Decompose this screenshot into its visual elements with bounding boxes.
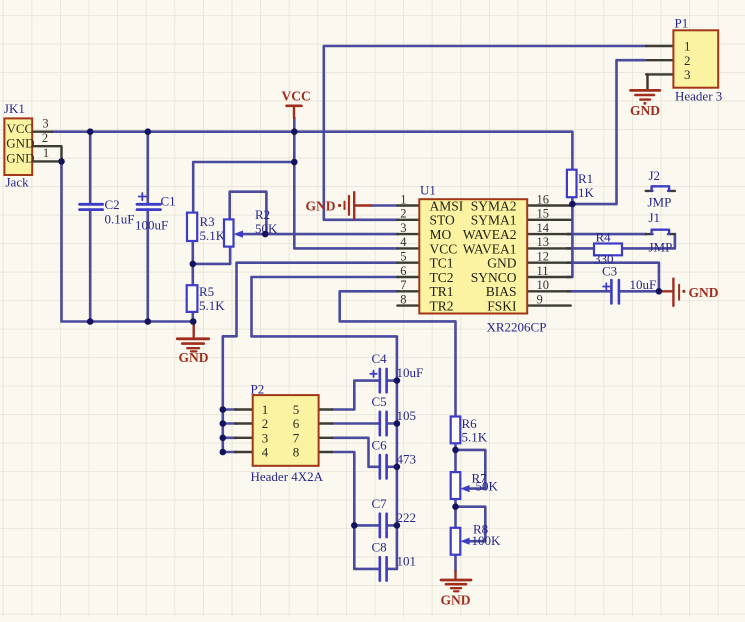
capacitor C6 bbox=[372, 437, 417, 478]
svg-text:6: 6 bbox=[400, 264, 406, 278]
potentiometer R8 bbox=[451, 521, 501, 554]
svg-text:5: 5 bbox=[293, 402, 300, 417]
svg-text:Jack: Jack bbox=[6, 175, 30, 190]
junction bbox=[58, 158, 65, 165]
wire U1 pin10 BIAS to C3 left bbox=[567, 290, 610, 293]
junction bbox=[220, 420, 227, 427]
svg-text:15: 15 bbox=[537, 207, 550, 221]
P2 pin 6 stub bbox=[319, 422, 332, 424]
svg-text:SYNCO: SYNCO bbox=[471, 270, 517, 285]
junction bbox=[291, 128, 298, 135]
svg-text:VCC: VCC bbox=[430, 241, 458, 256]
svg-text:50K: 50K bbox=[476, 478, 499, 493]
svg-text:9: 9 bbox=[537, 292, 543, 306]
JK1 pin 1 stub bbox=[32, 160, 61, 162]
wire R7 wiper loop bbox=[456, 450, 486, 489]
junction bbox=[190, 318, 197, 325]
svg-text:JMP: JMP bbox=[649, 240, 673, 255]
wire C2 top drop bbox=[89, 132, 92, 205]
svg-text:C7: C7 bbox=[372, 496, 388, 511]
VCC power port bbox=[282, 89, 311, 119]
junction bbox=[351, 522, 358, 529]
U1 pin 4 stub bbox=[397, 247, 419, 249]
svg-text:222: 222 bbox=[397, 510, 417, 525]
svg-text:2: 2 bbox=[400, 207, 406, 221]
svg-text:STO: STO bbox=[430, 213, 456, 228]
wire P2 bus to pin2 bbox=[223, 422, 237, 425]
svg-text:5.1K: 5.1K bbox=[200, 228, 226, 243]
U1 pin 6 stub bbox=[397, 276, 419, 278]
U1 pin 9 stub bbox=[527, 304, 571, 306]
svg-text:VCC: VCC bbox=[7, 121, 34, 136]
wire C1 top drop bbox=[147, 132, 150, 205]
svg-text:P2: P2 bbox=[251, 382, 265, 397]
junction bbox=[87, 128, 94, 135]
junction bbox=[656, 288, 663, 295]
junction bbox=[394, 464, 401, 471]
svg-text:GND: GND bbox=[630, 103, 660, 118]
JK1 pin 3 stub bbox=[32, 130, 52, 132]
connector P2 bbox=[251, 382, 324, 485]
wire P2 pin6 to C5 left bbox=[332, 422, 379, 425]
svg-text:MO: MO bbox=[430, 227, 452, 242]
svg-text:FSKI: FSKI bbox=[487, 299, 517, 314]
junction bbox=[452, 503, 459, 510]
U1 pin 2 stub bbox=[397, 219, 419, 221]
wire C5 right tie bbox=[388, 422, 397, 425]
svg-text:101: 101 bbox=[397, 553, 417, 568]
wire R3 top to VCC vertical bbox=[193, 162, 294, 213]
capacitor C3 bbox=[602, 264, 656, 304]
capacitor C4 bbox=[370, 351, 423, 392]
svg-text:TC2: TC2 bbox=[430, 270, 454, 285]
svg-text:C4: C4 bbox=[372, 351, 388, 366]
wire R7 bottom to R8 top bbox=[454, 499, 457, 528]
ground GND under R8 bbox=[441, 571, 472, 608]
svg-text:GND: GND bbox=[6, 151, 34, 166]
svg-text:GND: GND bbox=[306, 199, 336, 214]
wire U1 pin7 TR1 to R6 top bbox=[340, 291, 456, 416]
resistor R4 bbox=[594, 230, 622, 267]
svg-text:J2: J2 bbox=[649, 168, 661, 183]
capacitor C1 bbox=[135, 193, 176, 233]
svg-text:BIAS: BIAS bbox=[486, 284, 517, 299]
U1 pin 14 stub bbox=[527, 233, 571, 235]
power port GND at U1 pin1 bbox=[306, 192, 372, 218]
wire VCC rail top bbox=[52, 132, 573, 170]
P2 pin 3 stub bbox=[235, 437, 253, 439]
P1 pin 2 stub bbox=[646, 59, 673, 61]
junction bbox=[220, 406, 227, 413]
svg-text:473: 473 bbox=[397, 451, 417, 466]
wire R6 bottom to R7 top bbox=[454, 443, 457, 472]
wire P2 pin8 to C8 left bus bbox=[332, 452, 379, 569]
junction bbox=[87, 318, 94, 325]
P2 pin 5 stub bbox=[319, 408, 332, 410]
potentiometer R2 bbox=[224, 207, 278, 247]
junction bbox=[145, 318, 152, 325]
P2 pin 2 stub bbox=[235, 422, 253, 424]
junction bbox=[394, 377, 401, 384]
junction bbox=[220, 449, 227, 456]
ground GND under R5 bbox=[177, 322, 208, 366]
svg-text:8: 8 bbox=[293, 445, 300, 460]
U1 pin 1 stub bbox=[397, 204, 419, 206]
J1 stubs bbox=[646, 233, 653, 235]
svg-text:5: 5 bbox=[400, 250, 406, 264]
svg-text:4: 4 bbox=[400, 235, 407, 249]
svg-text:C1: C1 bbox=[161, 194, 176, 209]
svg-text:C6: C6 bbox=[372, 437, 388, 452]
svg-text:XR2206CP: XR2206CP bbox=[487, 320, 547, 335]
svg-text:7: 7 bbox=[400, 278, 406, 292]
wire R8 wiper loop bbox=[456, 507, 486, 542]
svg-text:WAVEA2: WAVEA2 bbox=[463, 227, 517, 242]
svg-text:AMSI: AMSI bbox=[430, 198, 464, 213]
wire P1 pin1 to U1 pin2 STO bbox=[324, 46, 646, 220]
svg-text:R5: R5 bbox=[199, 284, 214, 299]
connector P1 bbox=[673, 16, 722, 104]
U1 pin 7 stub bbox=[397, 290, 419, 292]
resistor R5 bbox=[187, 284, 226, 313]
jumper J2 bbox=[648, 168, 672, 209]
wire R5 bottom bbox=[192, 312, 195, 322]
svg-text:100K: 100K bbox=[472, 533, 502, 548]
svg-text:6: 6 bbox=[293, 416, 300, 431]
junction bbox=[394, 522, 401, 529]
ground GND under P1 pin3 bbox=[630, 74, 660, 118]
wire C1 bottom drop bbox=[147, 210, 150, 322]
wire U1 pin5 TC1 to P2 bus bbox=[223, 263, 398, 452]
junction bbox=[190, 261, 197, 268]
wire C3 right plate to junction bbox=[620, 290, 659, 293]
wire VCC drop to U1 pin 4 bbox=[294, 118, 398, 249]
svg-text:1: 1 bbox=[684, 39, 691, 54]
wire R2 wiper to U1 pin3 MO bbox=[243, 233, 398, 236]
wire P2 pin5 to C4 left bbox=[332, 381, 379, 410]
wire GND port to U1 pin1 bbox=[371, 204, 397, 207]
P1 pin 3 stub bbox=[646, 73, 673, 75]
svg-text:10uF: 10uF bbox=[397, 365, 424, 380]
wire U1 pin12 GND to C3 right bbox=[567, 263, 659, 292]
svg-text:5.1K: 5.1K bbox=[462, 430, 488, 445]
svg-text:11: 11 bbox=[537, 264, 549, 278]
svg-text:R1: R1 bbox=[578, 171, 593, 186]
svg-text:1: 1 bbox=[262, 402, 269, 417]
wire C4 right tie bbox=[388, 379, 397, 382]
svg-text:SYMA2: SYMA2 bbox=[471, 198, 517, 213]
P2 pin 1 stub bbox=[235, 408, 253, 410]
wire U1 pin13 to R4 left bbox=[567, 247, 594, 250]
svg-text:10: 10 bbox=[537, 278, 550, 292]
svg-text:10uF: 10uF bbox=[630, 277, 657, 292]
svg-text:C5: C5 bbox=[372, 394, 387, 409]
svg-text:Header 4X2A: Header 4X2A bbox=[251, 469, 324, 484]
svg-text:GND: GND bbox=[441, 593, 471, 608]
svg-text:C3: C3 bbox=[602, 264, 617, 279]
svg-text:3: 3 bbox=[42, 116, 48, 130]
wire JK1 pin1 ground rail bbox=[62, 161, 194, 321]
potentiometer R7 bbox=[451, 470, 499, 499]
wire P2 bus to pin1 bbox=[223, 408, 237, 411]
svg-text:2: 2 bbox=[684, 53, 691, 68]
svg-text:VCC: VCC bbox=[282, 89, 311, 104]
wire P2 bus to pin4 bbox=[223, 451, 237, 454]
U1 pin 8 stub bbox=[397, 304, 419, 306]
svg-text:105: 105 bbox=[397, 408, 417, 423]
svg-text:14: 14 bbox=[537, 221, 550, 235]
svg-text:P1: P1 bbox=[675, 16, 689, 31]
junction bbox=[569, 201, 576, 208]
wire R1 bottom to U1 pin11 SYNCO bbox=[567, 197, 572, 277]
wire C7 right tie bbox=[388, 524, 397, 527]
svg-text:13: 13 bbox=[537, 235, 550, 249]
svg-text:1K: 1K bbox=[578, 185, 595, 200]
junction bbox=[145, 128, 152, 135]
svg-text:JMP: JMP bbox=[648, 195, 672, 210]
power port GND at C3 bbox=[659, 279, 719, 306]
svg-text:JK1: JK1 bbox=[4, 101, 25, 116]
wire U1 pin14 to J1 left bbox=[567, 233, 646, 236]
svg-text:5.1K: 5.1K bbox=[199, 298, 225, 313]
JK1 pin 2 stub bbox=[32, 146, 61, 161]
svg-text:12: 12 bbox=[537, 250, 550, 264]
resistor R3 bbox=[187, 213, 226, 243]
capacitor C5 bbox=[372, 394, 417, 435]
svg-text:3: 3 bbox=[684, 67, 691, 82]
jumper J1 bbox=[649, 210, 673, 255]
svg-text:GND: GND bbox=[487, 256, 516, 271]
svg-text:8: 8 bbox=[400, 292, 406, 306]
wire C2 bottom drop bbox=[89, 210, 92, 322]
svg-text:3: 3 bbox=[262, 431, 269, 446]
U1 pin 3 stub bbox=[397, 233, 419, 235]
connector JK1 bbox=[4, 101, 49, 190]
svg-text:U1: U1 bbox=[420, 183, 436, 198]
junction bbox=[452, 447, 459, 454]
svg-text:TR1: TR1 bbox=[430, 284, 454, 299]
svg-text:TC1: TC1 bbox=[430, 256, 454, 271]
capacitor C8 bbox=[372, 539, 417, 580]
svg-text:4: 4 bbox=[262, 445, 269, 460]
wire C6 right tie bbox=[388, 465, 397, 468]
U1 pin 10 stub bbox=[527, 290, 571, 292]
P2 pin 4 stub bbox=[235, 451, 253, 453]
wire C7 left bbox=[354, 524, 378, 527]
svg-text:3: 3 bbox=[400, 221, 406, 235]
junction bbox=[262, 231, 269, 238]
svg-text:C8: C8 bbox=[372, 539, 387, 554]
wire R8 bottom bbox=[454, 555, 457, 571]
svg-text:R3: R3 bbox=[200, 214, 215, 229]
svg-text:J1: J1 bbox=[649, 210, 661, 225]
svg-text:SYMA1: SYMA1 bbox=[471, 213, 517, 228]
U1 pin 12 stub bbox=[527, 262, 571, 264]
U1 pin 16 stub bbox=[527, 204, 571, 206]
U1 pin 5 stub bbox=[397, 262, 419, 264]
svg-text:GND: GND bbox=[6, 135, 34, 150]
wire R3 bottom to R5 top bbox=[192, 241, 195, 285]
svg-text:R4: R4 bbox=[596, 230, 612, 245]
wire P2 bus to pin3 bbox=[223, 436, 237, 439]
resistor R1 bbox=[567, 170, 595, 200]
capacitor C7 bbox=[372, 496, 417, 537]
P2 pin 7 stub bbox=[319, 437, 332, 439]
P1 pin 1 stub bbox=[646, 45, 673, 47]
svg-text:7: 7 bbox=[293, 431, 300, 446]
capacitor C2 bbox=[80, 197, 135, 227]
wire R2 top loop to wiper bbox=[230, 192, 267, 234]
resistor R6 bbox=[451, 416, 488, 445]
svg-text:Header 3: Header 3 bbox=[675, 89, 722, 104]
svg-text:2: 2 bbox=[262, 416, 269, 431]
svg-text:C2: C2 bbox=[105, 197, 120, 212]
wire P1 pin2 to R1 bottom bbox=[572, 60, 644, 204]
svg-text:2: 2 bbox=[42, 131, 48, 145]
junction bbox=[220, 435, 227, 442]
wire C8 right tie bbox=[388, 568, 397, 571]
svg-text:100uF: 100uF bbox=[135, 218, 168, 233]
svg-text:1: 1 bbox=[43, 146, 49, 160]
U1 pin 13 stub bbox=[527, 247, 571, 249]
IC U1 XR2206CP bbox=[400, 183, 550, 335]
svg-text:16: 16 bbox=[537, 192, 550, 206]
svg-text:1: 1 bbox=[400, 192, 406, 206]
svg-text:TR2: TR2 bbox=[430, 299, 454, 314]
wire R4 right to J1 right bbox=[622, 234, 675, 248]
svg-text:0.1uF: 0.1uF bbox=[105, 212, 135, 227]
svg-text:R2: R2 bbox=[255, 207, 270, 222]
U1 pin 15 stub bbox=[527, 219, 571, 221]
svg-text:GND: GND bbox=[689, 285, 719, 300]
wire R3 bottom to R2 bottom bbox=[193, 247, 230, 264]
junction bbox=[394, 420, 401, 427]
svg-text:WAVEA1: WAVEA1 bbox=[463, 241, 517, 256]
wire U1 pin6 TC2 to caps bus bbox=[252, 277, 399, 569]
junction bbox=[291, 159, 298, 166]
svg-text:GND: GND bbox=[179, 350, 209, 365]
U1 pin 11 stub bbox=[527, 276, 571, 278]
J2 stubs bbox=[646, 190, 653, 192]
P2 pin 8 stub bbox=[319, 451, 332, 453]
wire P2 pin7 to C6 left bbox=[332, 438, 379, 467]
